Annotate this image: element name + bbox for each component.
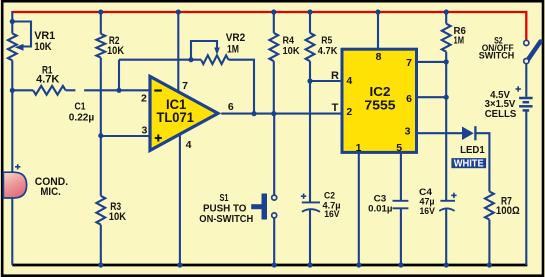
switch S2 contact top [524,40,529,45]
VR2 wiper bracket [191,41,220,60]
battery label [485,90,517,120]
wire LED to R7 [475,133,489,191]
svg-text:10K: 10K [107,45,124,57]
node feedback junction [116,88,121,93]
svg-text:MIC.: MIC. [40,186,60,198]
pin 4 label [186,139,192,151]
IC2 label [364,84,395,113]
node bias junction [98,133,103,138]
node C4 ground [444,262,449,267]
wire IC1 pin 4 [179,133,181,265]
svg-text:10K: 10K [109,211,126,223]
svg-text:7: 7 [406,57,412,69]
wire R1 to C1 [66,89,76,91]
IC1 label [156,97,194,125]
node VR2 drop [251,111,256,116]
wire IC1 pin 7 [177,11,179,92]
wire mic to R1 [12,89,33,91]
wire C3 to ground [400,208,402,265]
node R7 ground [487,262,492,267]
pin 5 label IC2 [396,142,402,154]
VR1 label [34,30,55,53]
wire feedback riser [118,60,120,91]
S2 label [479,35,515,61]
C3 label [368,194,392,215]
wire VR2 to output [228,60,254,114]
wire riser to VR2 [119,59,201,61]
wire reset to IC2 pin 4 [310,80,341,82]
resistor R3 [96,196,105,225]
C4 plus sign [451,193,456,198]
VR1 wiper bracket [12,22,31,51]
R7 label [496,196,520,217]
svg-text:5: 5 [396,142,402,154]
wire IC2 pin 1 [358,152,360,265]
IC1 plus sign [155,135,162,142]
wire C4 to ground [445,209,447,265]
pin 6 label IC2 [406,93,412,105]
capacitor C3 [393,201,409,209]
node C2 ground [307,262,312,267]
op-amp IC1 [150,76,218,150]
wire R3 to ground [100,225,102,265]
switch S2 lever [528,42,541,60]
R3 label [109,201,126,223]
capacitor C1 (gap) wire to pin 2 [84,89,150,91]
svg-text:3: 3 [405,125,411,137]
R net label [331,70,339,82]
IC1 minus sign [154,89,162,91]
resistor R1 [33,86,66,95]
svg-text:6: 6 [406,93,412,105]
node VR1 top [10,19,15,24]
wire IC2 pin 8 [377,11,379,50]
node pin6 junction [444,95,449,100]
capacitor C4 [439,201,455,211]
svg-text:VR1: VR1 [34,30,55,42]
svg-text:10K: 10K [34,41,52,53]
svg-text:1M: 1M [454,35,465,46]
wire left rail upper [11,11,13,33]
wire IC2 pin 3 to LED [417,132,463,134]
pin 4 label IC2 [346,75,352,87]
switch S2 contact bottom [524,59,529,64]
C4 label [419,187,435,217]
wire battery to ground [525,110,527,265]
svg-text:ON-SWITCH: ON-SWITCH [199,213,253,225]
pin 1 label IC2 [356,142,362,154]
R1 label [36,64,59,85]
wire R7 to ground [488,220,490,265]
svg-text:7555: 7555 [364,98,395,113]
capacitor C2 [302,202,320,211]
svg-text:VR2: VR2 [226,32,246,44]
pin 8 label [376,51,382,63]
R4 label [283,35,300,57]
R6 label [454,26,467,46]
condenser microphone [3,172,26,198]
node pin1 ground [356,262,361,267]
node pin7 junction [444,59,449,64]
svg-text:8: 8 [376,51,382,63]
VR2 label [226,32,246,56]
battery cells [519,98,533,110]
node reset junction [307,78,312,83]
svg-text:LED1: LED1 [460,145,485,156]
svg-text:T: T [332,102,339,114]
C2 label [323,191,341,221]
svg-text:16V: 16V [324,209,340,220]
pin 2 label [141,93,147,105]
svg-text:4.7K: 4.7K [36,74,59,86]
wire R5 to C2 [309,61,311,202]
R5 label [318,35,338,57]
battery plus sign [516,86,521,91]
mic label [35,176,68,198]
C2 plus sign [301,194,306,199]
svg-text:6: 6 [228,101,234,113]
svg-text:3: 3 [141,125,147,137]
potentiometer VR1 [8,33,17,60]
wire R5 top [309,11,311,33]
node C3 ground [398,262,403,267]
node R2 supply [98,9,103,14]
pin 7 label IC2 [406,57,412,69]
svg-text:SWITCH: SWITCH [479,51,515,62]
positive supply wire (red) [12,12,526,40]
svg-text:2: 2 [141,93,147,105]
mic plus sign [15,164,20,169]
svg-text:0.22µ: 0.22µ [69,112,95,123]
potentiometer VR2 [201,55,228,64]
wire C2 to ground [309,210,311,266]
node R4 supply [271,9,276,14]
wire IC2 pin 6 stub [417,96,447,98]
C1 label [69,102,95,124]
svg-text:7: 7 [182,80,188,92]
LED1 label [460,145,485,156]
wire R2 to R3 [100,58,102,196]
switch S1 contact top [272,195,277,200]
node R3 ground [98,262,103,267]
svg-text:CELLS: CELLS [485,109,517,120]
R2 label [107,35,124,57]
node VR2 left [188,57,193,62]
svg-text:2: 2 [346,106,352,118]
wire left rail lower [11,60,13,265]
resistor R5 [306,33,315,61]
pin 3 label [141,125,147,137]
node pin8 supply [375,9,380,14]
pin 6 label [228,101,234,113]
wire IC2 pin 5 to C3 [400,152,402,201]
switch S1 contact bottom [272,213,277,218]
wire output to IC2 pin 2 [221,113,340,115]
wire R4 bottom [273,61,275,113]
LED1 WHITE tag [451,158,486,170]
svg-text:4: 4 [186,139,192,151]
wire bias to pin 3 [101,135,150,137]
node pin4 ground [177,262,182,267]
wire T node to S1 [273,114,275,195]
resistor R2 [96,34,105,58]
pin 7 label [182,80,188,92]
node S1 ground [272,262,277,267]
svg-text:C1: C1 [75,102,86,113]
pin 2 label IC2 [346,106,352,118]
svg-text:0.01µ: 0.01µ [368,204,392,215]
resistor R4 [269,33,278,61]
switch S1 plunger [251,194,267,220]
wire R2 top [100,11,102,34]
node R5 supply [307,9,312,14]
timer IC2 7555 [342,49,417,152]
wire S1 to ground [273,218,275,265]
svg-text:WHITE: WHITE [454,159,484,170]
node R4 bottom [271,111,276,116]
svg-text:10K: 10K [283,45,300,57]
wire S2 to battery [525,64,527,97]
svg-text:1: 1 [356,142,362,154]
svg-text:4.7K: 4.7K [318,45,338,57]
svg-text:1M: 1M [227,44,239,56]
LED1 diode [462,126,475,140]
T net label [332,102,339,114]
wire R4 top [273,11,275,33]
svg-text:16V: 16V [420,206,436,217]
node pin7 supply [176,9,181,14]
ground rail [12,264,527,267]
svg-text:100Ω: 100Ω [496,205,520,217]
wire R6 to C4 [445,52,447,201]
wire R6 top [445,11,447,24]
svg-text:R: R [331,70,339,82]
node R1 left [10,88,15,93]
node R6 supply [444,9,449,14]
resistor R7 [485,192,494,220]
wire IC2 pin 7 stub [417,61,447,63]
resistor R6 [442,24,451,52]
pin 3 label IC2 [405,125,411,137]
svg-text:4: 4 [346,75,352,87]
S1 label [199,192,253,225]
svg-text:TL071: TL071 [156,110,194,125]
